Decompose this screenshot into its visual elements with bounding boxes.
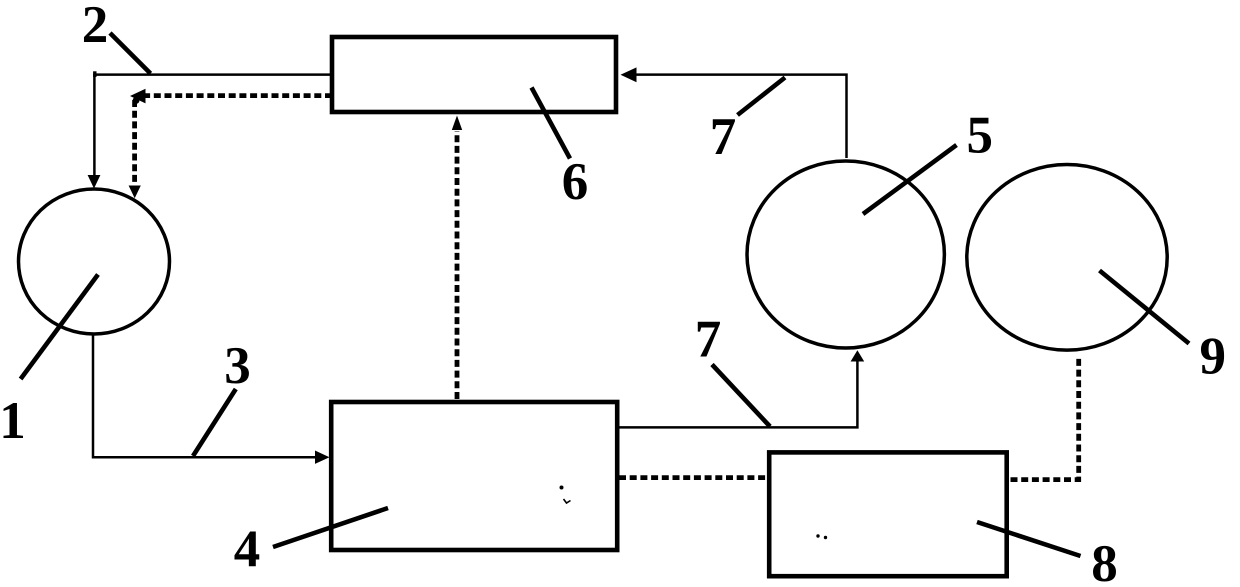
arrowhead down into circle 1 [88, 175, 101, 189]
svg-text:1: 1 [0, 392, 26, 450]
circle 9 [967, 164, 1167, 350]
leader line for label 4 [273, 508, 388, 547]
leader line for label 9 [1100, 271, 1190, 344]
arrowhead left on dashed wire [130, 89, 146, 104]
svg-text:2: 2 [82, 0, 109, 54]
arrow tail blob [133, 97, 140, 104]
svg-text:7: 7 [695, 311, 722, 369]
leader line for lower label 7 [712, 365, 770, 427]
wire: dashed from block4 right to block8 left [619, 475, 766, 480]
svg-text:7: 7 [710, 108, 737, 166]
speck arrow inside block 4 [564, 499, 571, 503]
wire: dashed vertical down to circle1 top [132, 100, 137, 186]
arrowhead left into block 6 [621, 67, 637, 82]
circle 1 (left pump) [19, 189, 170, 334]
leader line for label 3 [193, 389, 236, 456]
arrowhead up dashed into block 6 [452, 116, 462, 131]
svg-text:4: 4 [234, 521, 261, 579]
leader line for label 8 [977, 522, 1081, 556]
wire: circle1 bottom down, right into block4 (solid) [93, 335, 317, 458]
wire: dashed vertical from block4 top up into block6 bottom [455, 131, 460, 399]
wire: dashed from block6 left, arrow left, then down to circle1 (dashed) [140, 93, 332, 98]
wire: from circle5 top up and left into block6 right (solid) [636, 75, 847, 158]
leader line for label 2 [110, 33, 151, 74]
wire: block6 left to corner to circle1 top (solid) [94, 75, 330, 182]
circle 5 [747, 161, 944, 348]
svg-text:9: 9 [1199, 328, 1226, 386]
arrowhead right into block 4 [315, 451, 330, 464]
svg-text:3: 3 [224, 337, 251, 395]
speck dots inside block 8 [816, 534, 819, 537]
wire: dashed from block8 right, right then up to circle9 bottom [1011, 358, 1079, 480]
leader line for label 5 [863, 145, 957, 214]
arrowhead down dashed into circle 1 [129, 186, 141, 199]
wire: block4 right, right then up into circle5 bottom (solid) [617, 361, 857, 427]
block 6 (top rectangle) [332, 37, 616, 112]
svg-text:6: 6 [562, 153, 589, 211]
speck dot inside block 4 [560, 486, 564, 490]
leader line for label 1 [21, 275, 98, 380]
block 8 (bottom-right rectangle) [769, 452, 1007, 576]
arrowhead up into circle 5 [851, 350, 865, 361]
leader line for label 6 [532, 88, 571, 159]
corner stub [93, 71, 96, 77]
svg-text:5: 5 [966, 107, 993, 165]
svg-text:8: 8 [1091, 535, 1118, 587]
block 4 (bottom-center rectangle) [331, 402, 617, 550]
leader line for upper label 7 [738, 78, 786, 116]
